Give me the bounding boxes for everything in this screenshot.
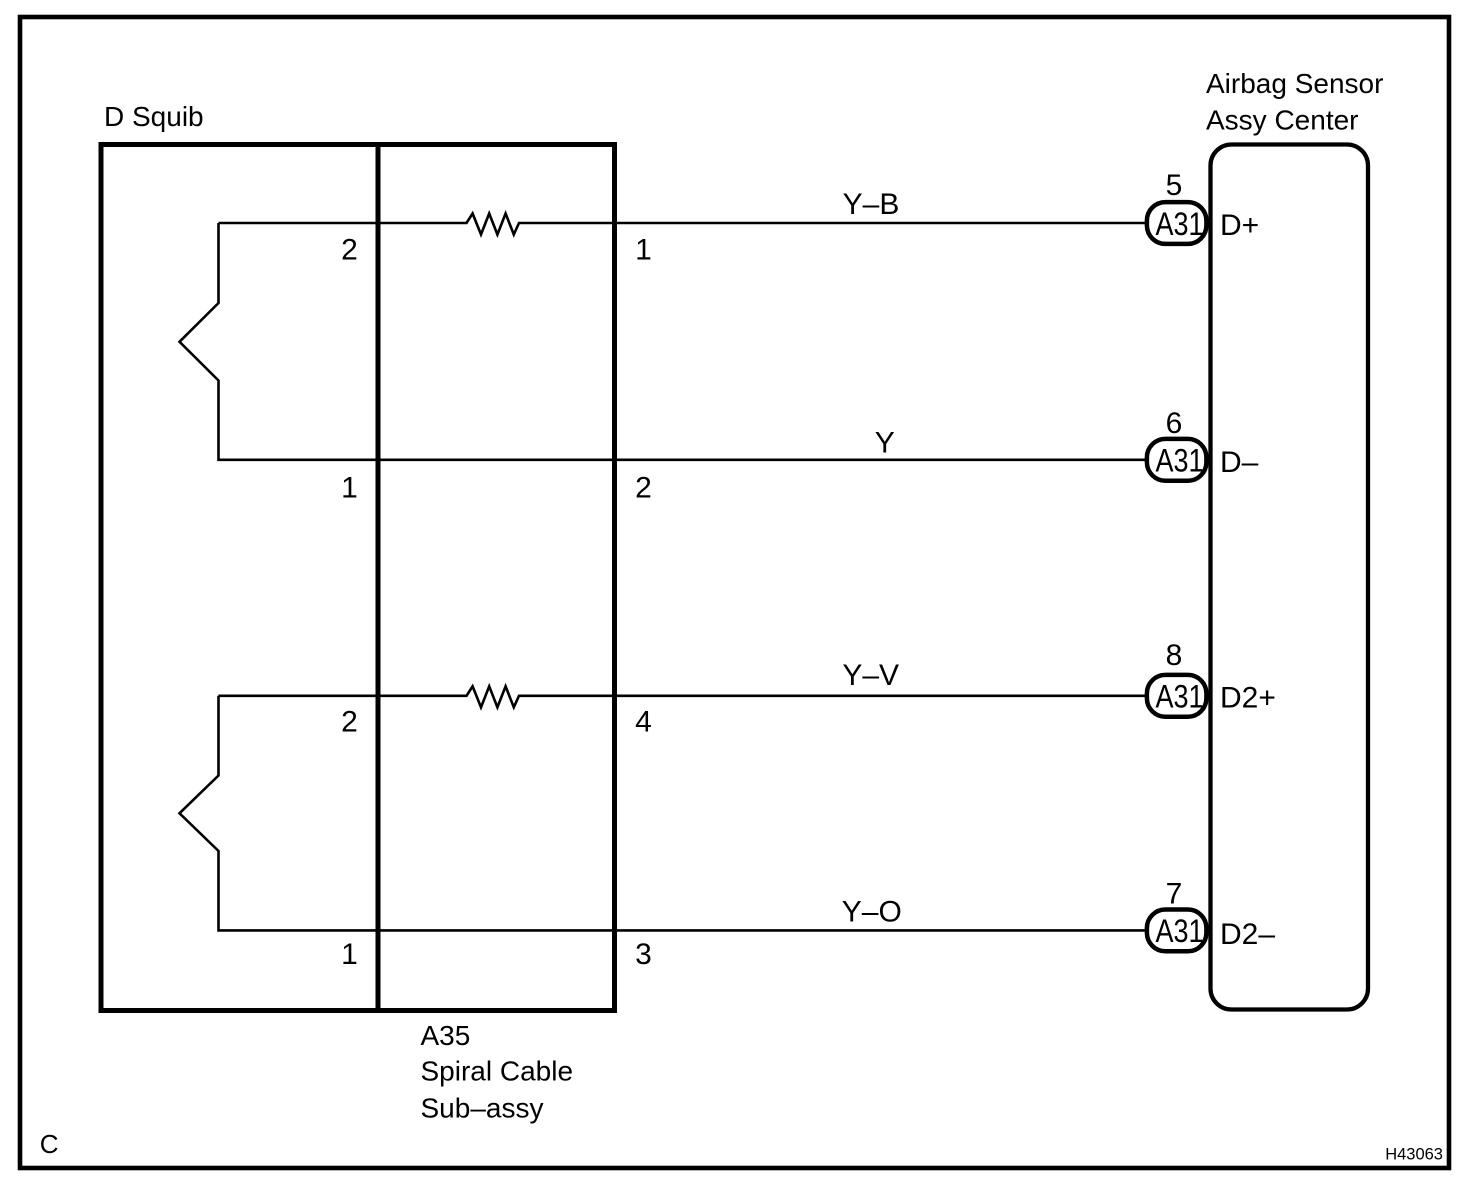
- svg-text:Sub–assy: Sub–assy: [421, 1093, 544, 1124]
- svg-text:A31: A31: [1156, 913, 1204, 949]
- svg-text:1: 1: [341, 471, 358, 504]
- svg-text:D Squib: D Squib: [104, 101, 204, 132]
- svg-text:Y–V: Y–V: [842, 659, 899, 692]
- svg-text:D2+: D2+: [1220, 682, 1276, 715]
- svg-text:D–: D–: [1220, 446, 1259, 479]
- svg-text:4: 4: [635, 705, 652, 738]
- svg-text:A35: A35: [421, 1020, 471, 1051]
- svg-text:A31: A31: [1156, 206, 1204, 242]
- svg-text:D+: D+: [1220, 209, 1259, 242]
- svg-text:3: 3: [635, 938, 652, 971]
- svg-text:Spiral Cable: Spiral Cable: [421, 1056, 574, 1087]
- svg-text:A31: A31: [1156, 679, 1204, 715]
- svg-text:7: 7: [1166, 878, 1183, 911]
- svg-text:6: 6: [1166, 407, 1183, 440]
- svg-text:Y–B: Y–B: [843, 188, 900, 221]
- svg-text:2: 2: [341, 705, 358, 738]
- svg-text:H43063: H43063: [1385, 1146, 1443, 1164]
- svg-text:Assy Center: Assy Center: [1206, 105, 1359, 136]
- svg-text:C: C: [40, 1129, 59, 1159]
- svg-text:5: 5: [1166, 169, 1183, 202]
- svg-text:Airbag Sensor: Airbag Sensor: [1206, 68, 1383, 99]
- svg-text:1: 1: [341, 938, 358, 971]
- svg-text:A31: A31: [1156, 443, 1204, 479]
- svg-text:2: 2: [341, 234, 358, 267]
- svg-text:Y: Y: [875, 427, 895, 460]
- svg-text:Y–O: Y–O: [842, 896, 902, 929]
- svg-text:8: 8: [1166, 639, 1183, 672]
- svg-text:2: 2: [635, 471, 652, 504]
- svg-text:D2–: D2–: [1220, 918, 1275, 951]
- svg-text:1: 1: [635, 234, 652, 267]
